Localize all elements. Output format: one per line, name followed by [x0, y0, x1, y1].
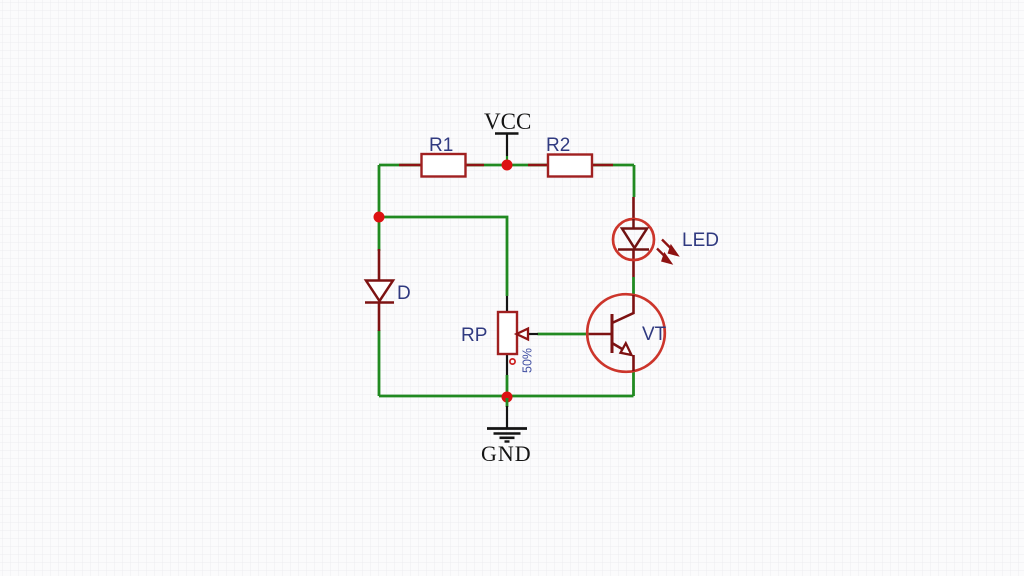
wire mid horizontal to RP: [379, 217, 507, 296]
ground: [481, 398, 532, 466]
wire right vertical: [632, 165, 635, 396]
wire left vertical: [378, 165, 381, 396]
wire RP wiper to transistor base: [538, 333, 590, 336]
wire top rail: [379, 164, 634, 167]
svg-text:VCC: VCC: [484, 109, 531, 134]
potentiometer RP: [461, 296, 538, 375]
LED: [613, 197, 719, 277]
svg-text:R1: R1: [429, 135, 453, 156]
node junction VCC rail: [502, 160, 513, 171]
node junction bottom rail: [502, 392, 513, 403]
svg-text:GND: GND: [481, 441, 532, 466]
resistor R2: [528, 135, 613, 177]
transistor VT: [587, 294, 666, 372]
svg-text:R2: R2: [546, 135, 570, 156]
diode D: [365, 249, 411, 331]
power VCC: [484, 109, 531, 161]
svg-text:50%: 50%: [521, 348, 535, 373]
wire bottom rail: [379, 395, 634, 398]
svg-text:RP: RP: [461, 325, 487, 346]
svg-text:LED: LED: [682, 230, 719, 251]
resistor R1: [399, 135, 484, 177]
node junction left rail: [374, 212, 385, 223]
wire RP bottom: [506, 375, 509, 396]
svg-text:VT: VT: [642, 324, 667, 345]
svg-text:D: D: [397, 283, 411, 304]
